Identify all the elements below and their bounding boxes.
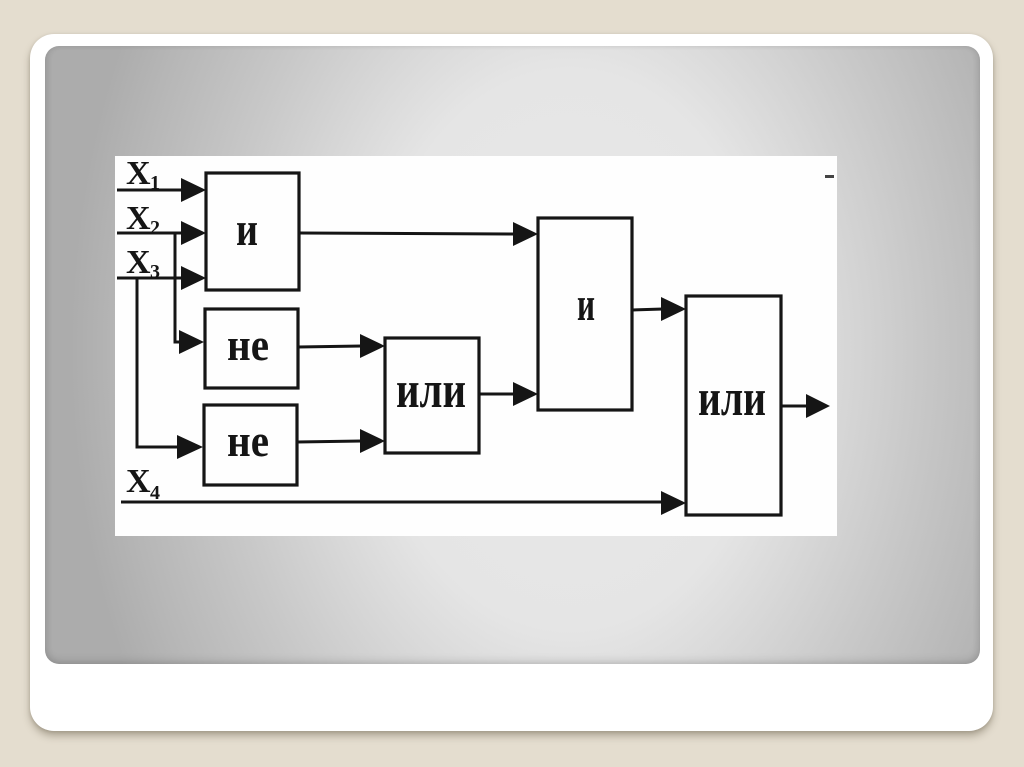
node label X2: [126, 200, 160, 239]
node label X3: [126, 244, 160, 283]
svg-text:не: не: [227, 415, 269, 466]
svg-text:и: и: [236, 203, 258, 256]
node label X4: [126, 463, 160, 504]
wire X2 branch to NOT gate U2: [175, 233, 204, 354]
svg-text:или: или: [396, 362, 466, 419]
wire AND U1 output to AND U4: [299, 222, 538, 246]
svg-text:или: или: [698, 370, 766, 427]
svg-text:X: X: [126, 463, 151, 500]
svg-text:и: и: [577, 278, 595, 331]
svg-text:не: не: [227, 319, 269, 370]
wire NOT U2 output to OR U5: [298, 334, 385, 358]
svg-text:X: X: [126, 200, 151, 237]
svg-text:2: 2: [150, 217, 160, 239]
NOT gate U3: [204, 405, 297, 485]
scan artifact mark: [825, 175, 834, 178]
AND gate U1: [206, 173, 299, 290]
wire input X4 to OR gate U6: [121, 491, 686, 515]
svg-text:X: X: [126, 156, 151, 192]
wire AND U4 output to OR U6: [632, 297, 686, 321]
wire input X1: [117, 178, 206, 202]
wire OR U5 output to AND U4: [479, 382, 538, 406]
wire X3 branch to NOT gate U3: [137, 278, 203, 459]
wire input X3: [117, 266, 206, 290]
OR gate U6: [686, 296, 781, 515]
wire NOT U3 output to OR U5: [297, 429, 385, 453]
svg-text:4: 4: [150, 482, 160, 504]
NOT gate U2: [205, 309, 298, 388]
AND gate U4: [538, 218, 632, 410]
node label X1: [126, 155, 160, 194]
svg-text:1: 1: [150, 172, 160, 194]
OR gate U5: [385, 338, 479, 453]
wire OR U6 output Y: [781, 394, 830, 418]
wire input X2: [117, 221, 206, 245]
svg-text:X: X: [126, 244, 151, 281]
svg-text:3: 3: [150, 261, 160, 283]
